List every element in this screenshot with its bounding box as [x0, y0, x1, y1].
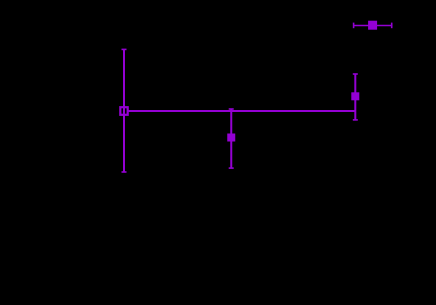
point P3 bottom cap [353, 119, 358, 121]
point P1 top cap [122, 48, 127, 50]
point P1 x-error bar [124, 110, 355, 112]
legend sample right cap [391, 23, 393, 29]
point P1 bottom cap [122, 171, 127, 173]
point P1 marker (open square) [120, 107, 127, 115]
point P2 y-error bar [230, 109, 232, 168]
point P3 marker (filled square) [351, 92, 359, 100]
point P1 y-error bar [123, 49, 125, 172]
legend sample horizontal bar [354, 25, 392, 27]
point P2 top cap [229, 108, 234, 110]
point P3 y-error bar [354, 74, 356, 120]
legend sample left cap [353, 23, 355, 29]
point P2 bottom cap [229, 167, 234, 169]
point P3 top cap [353, 73, 358, 75]
legend sample marker (filled square) [368, 21, 377, 30]
point P2 marker (filled square) [227, 134, 235, 142]
